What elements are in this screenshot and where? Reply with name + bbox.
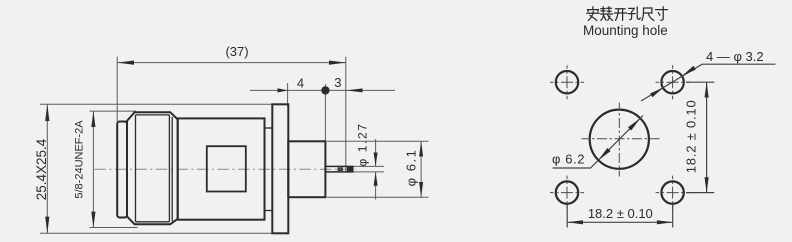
svg-text:φ 6.1: φ 6.1 — [404, 149, 419, 187]
svg-text:(37): (37) — [225, 44, 248, 59]
svg-text:18.2 ± 0.10: 18.2 ± 0.10 — [588, 206, 653, 221]
svg-text:5/8-24UNEF-2A: 5/8-24UNEF-2A — [73, 120, 85, 199]
svg-text:25.4X25.4: 25.4X25.4 — [34, 138, 49, 200]
svg-text:Mounting hole: Mounting hole — [583, 23, 668, 38]
svg-text:3: 3 — [334, 75, 341, 90]
svg-text:4: 4 — [297, 76, 304, 91]
svg-text:φ 1.27: φ 1.27 — [356, 122, 370, 166]
svg-text:φ 6.2: φ 6.2 — [552, 152, 585, 167]
svg-text:4 — φ 3.2: 4 — φ 3.2 — [706, 49, 764, 64]
svg-text:18.2 ± 0.10: 18.2 ± 0.10 — [684, 100, 699, 174]
